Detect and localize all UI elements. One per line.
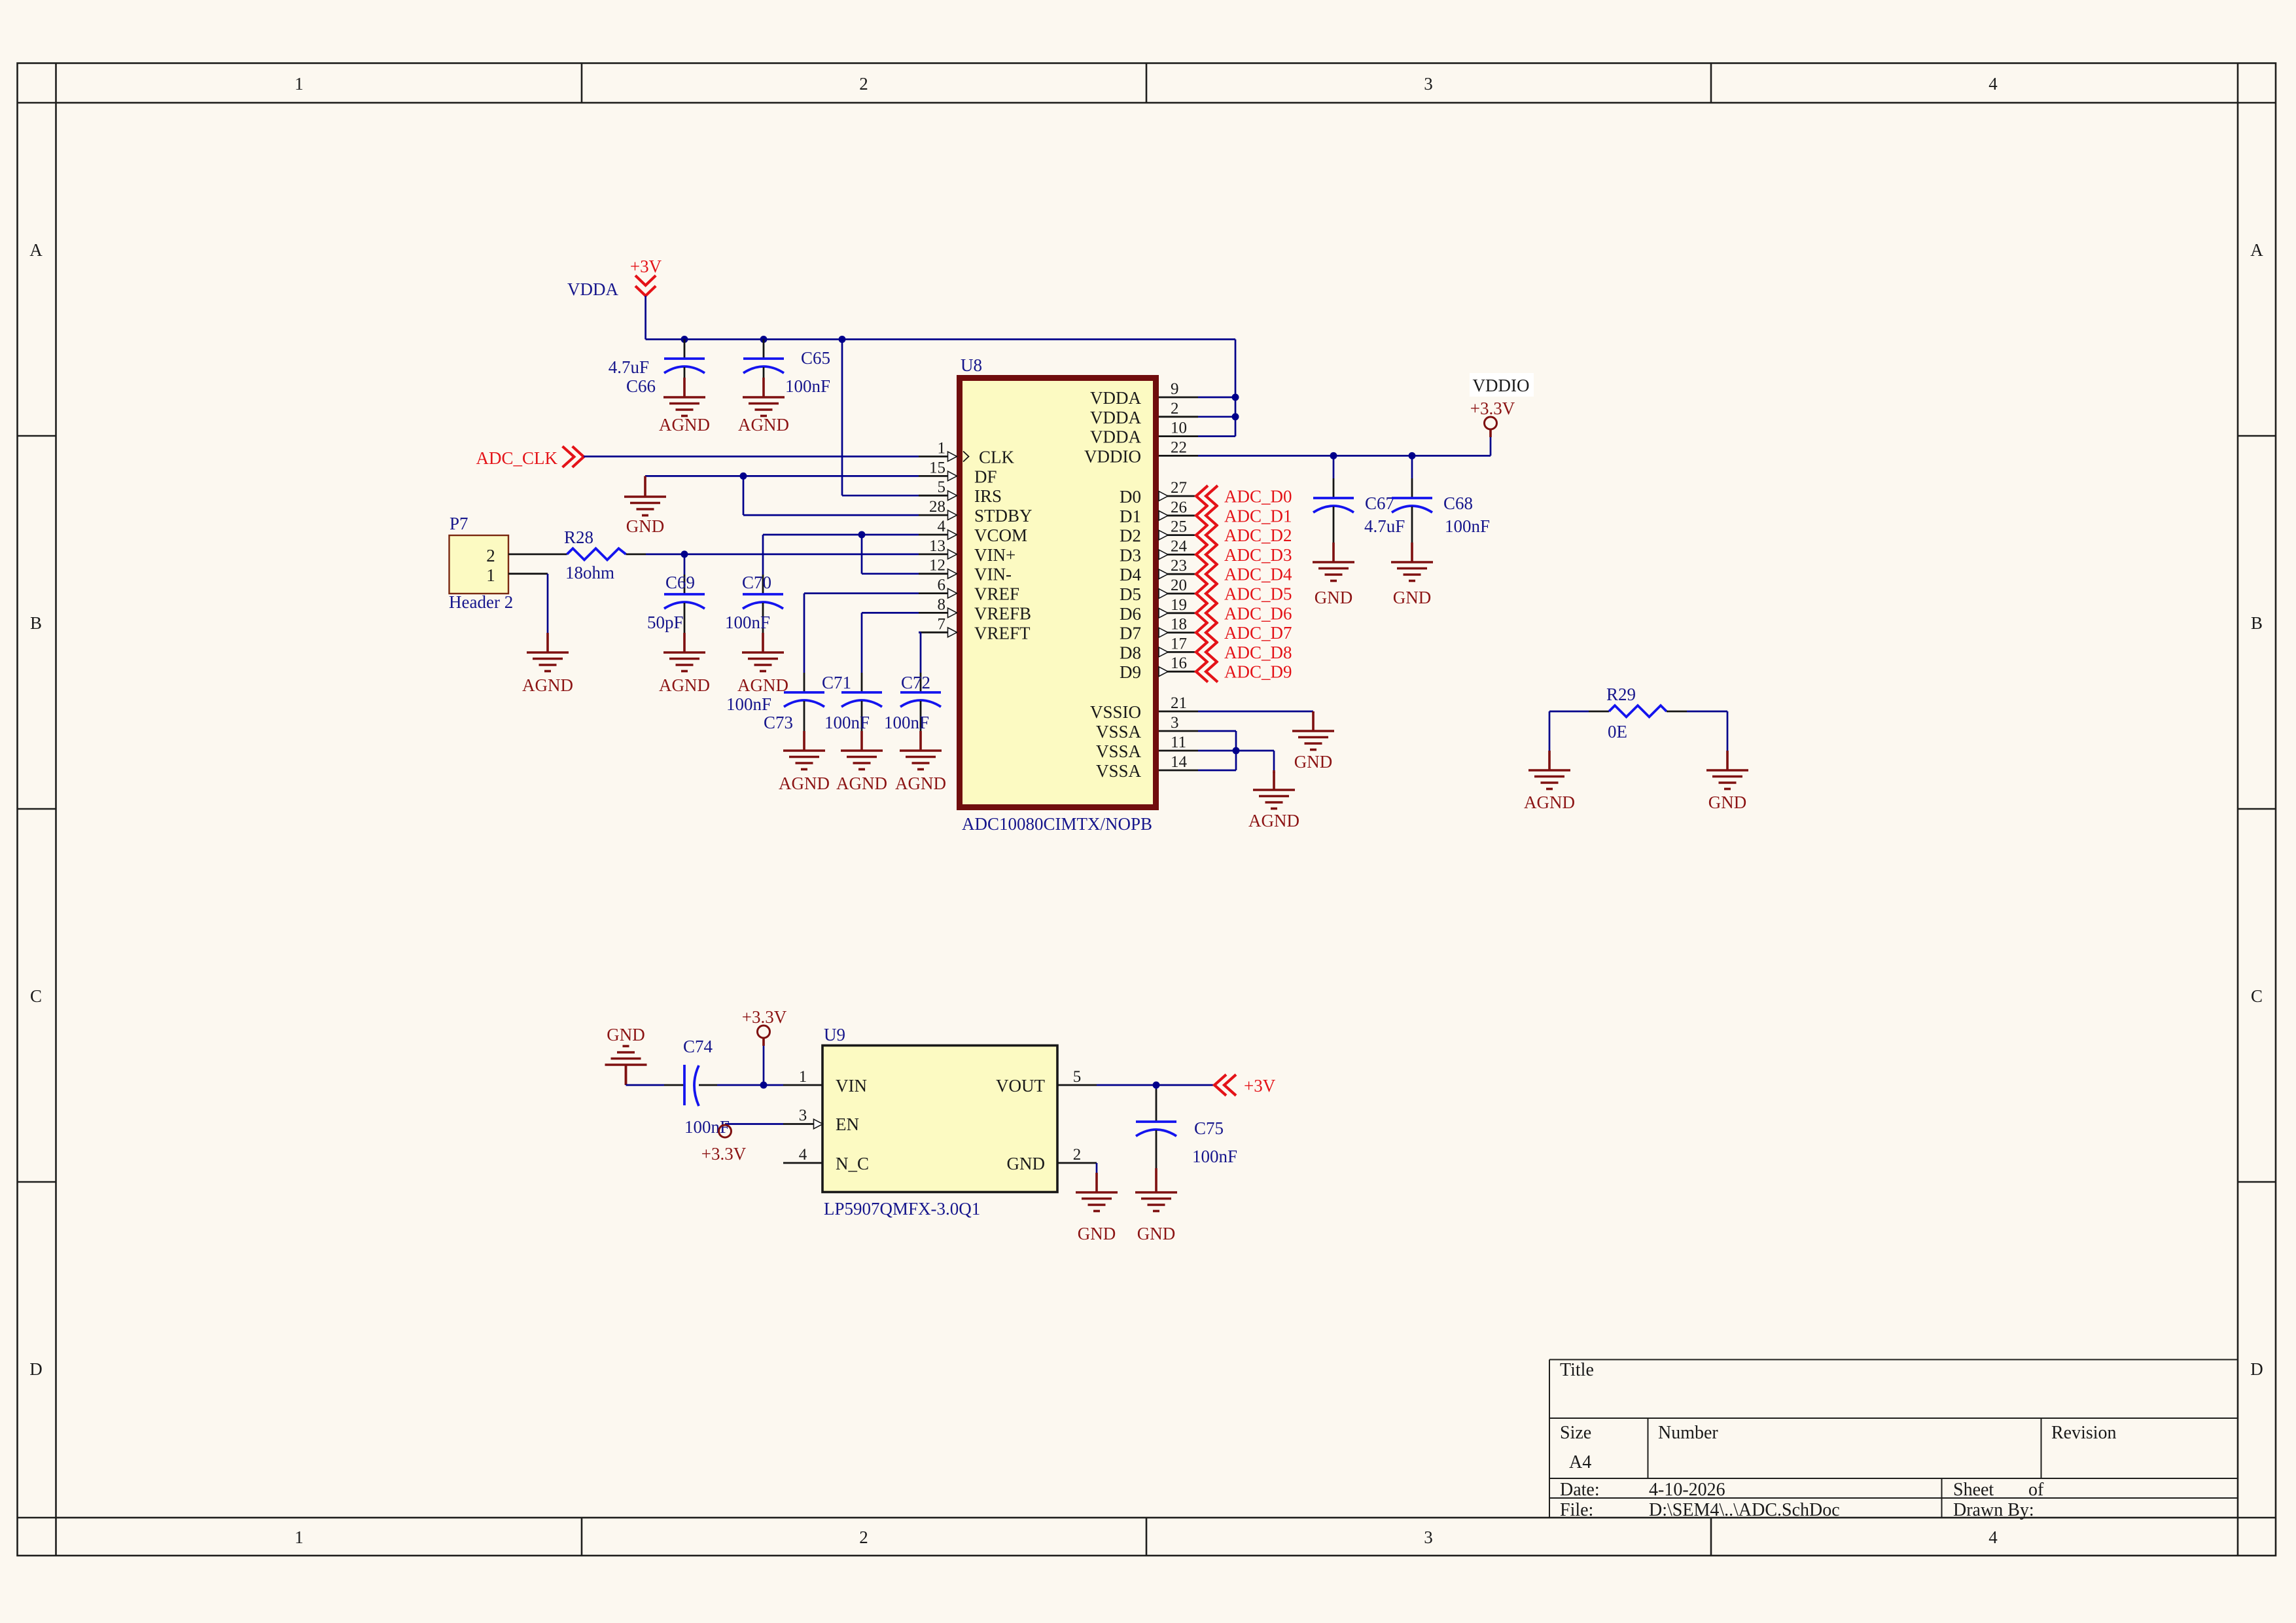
U8 pin 14 VSSA (1159, 770, 1198, 772)
svg-text:D1: D1 (1120, 507, 1141, 526)
svg-text:AGND: AGND (836, 774, 887, 793)
wire pin2 (1198, 416, 1235, 418)
wire P7 pin1 to AGND (547, 574, 549, 633)
U9 pin 4 N_C (783, 1162, 822, 1164)
U8 pin 15 DF (919, 475, 957, 477)
svg-text:VDDA: VDDA (1090, 408, 1141, 427)
svg-text:1: 1 (486, 565, 495, 585)
svg-text:GND: GND (1294, 752, 1333, 772)
wire GND to C74 (626, 1084, 665, 1086)
svg-text:ADC_D0: ADC_D0 (1224, 487, 1292, 507)
svg-text:4: 4 (1988, 74, 1998, 94)
svg-text:50pF: 50pF (647, 613, 684, 632)
svg-text:D0: D0 (1120, 487, 1141, 507)
svg-text:Header 2: Header 2 (449, 592, 513, 612)
ground GND (U9 pin2) (1076, 1173, 1118, 1211)
svg-text:D:\SEM4\..\ADC.SchDoc: D:\SEM4\..\ADC.SchDoc (1649, 1500, 1840, 1520)
junction (1330, 452, 1337, 459)
svg-text:22: 22 (1171, 438, 1187, 456)
svg-text:C70: C70 (742, 573, 771, 592)
svg-text:EN: EN (836, 1115, 859, 1134)
U8 pin 11 VSSA (1159, 750, 1198, 752)
svg-text:Title: Title (1560, 1360, 1594, 1380)
wire STDBY (743, 476, 745, 515)
ground AGND (C72) (900, 731, 942, 770)
svg-text:VSSIO: VSSIO (1090, 702, 1141, 722)
svg-text:GND: GND (1393, 588, 1432, 607)
svg-text:B: B (30, 613, 42, 633)
svg-text:D: D (29, 1359, 43, 1379)
svg-text:2: 2 (859, 74, 868, 94)
P7 pin 2 (508, 554, 548, 556)
U8 pin 3 VSSA (1159, 730, 1198, 732)
svg-text:AGND: AGND (1248, 811, 1299, 830)
svg-text:Size: Size (1560, 1423, 1591, 1443)
port ADC_D0 (1196, 486, 1218, 507)
svg-text:VREFB: VREFB (974, 603, 1031, 623)
ground AGND (C65) (743, 378, 785, 416)
svg-text:U9: U9 (824, 1025, 845, 1044)
svg-text:8: 8 (938, 596, 946, 613)
svg-text:ADC_D4: ADC_D4 (1224, 565, 1292, 584)
svg-text:B: B (2251, 613, 2263, 633)
svg-text:D5: D5 (1120, 584, 1141, 604)
svg-text:1: 1 (294, 74, 304, 94)
capacitor C74 100nF (664, 1084, 684, 1086)
wire U9 GND pin (1096, 1163, 1098, 1173)
svg-text:12: 12 (929, 557, 945, 575)
svg-text:Drawn By:: Drawn By: (1953, 1500, 2034, 1520)
junction (1232, 394, 1239, 401)
svg-text:D8: D8 (1120, 643, 1141, 662)
svg-text:R28: R28 (564, 527, 593, 547)
svg-text:GND: GND (626, 516, 665, 536)
svg-text:2: 2 (859, 1527, 868, 1547)
svg-text:ADC_D7: ADC_D7 (1224, 623, 1292, 643)
svg-text:GND: GND (1137, 1224, 1176, 1243)
svg-text:D4: D4 (1120, 565, 1141, 584)
capacitor C72 100nF (920, 673, 922, 692)
capacitor C66 4.7uF (684, 340, 686, 359)
ground GND (C67) (1313, 543, 1354, 581)
svg-text:AGND: AGND (659, 415, 710, 435)
ground AGND (VSSA) (1273, 772, 1275, 773)
svg-text:DF: DF (974, 467, 997, 486)
svg-text:GND: GND (1078, 1224, 1116, 1243)
svg-text:ADC_D1: ADC_D1 (1224, 506, 1292, 526)
svg-text:VSSA: VSSA (1096, 722, 1142, 741)
svg-text:+3V: +3V (1244, 1076, 1276, 1096)
svg-text:4: 4 (938, 518, 946, 535)
svg-text:1: 1 (799, 1068, 807, 1086)
wire pin9 (1198, 397, 1235, 399)
svg-text:3: 3 (1424, 1527, 1433, 1547)
ground AGND (C66) (663, 378, 705, 416)
capacitor C65 100nF (763, 340, 765, 359)
svg-text:C74: C74 (683, 1037, 713, 1056)
svg-text:25: 25 (1171, 518, 1187, 536)
capacitor C67 4.7uF (1333, 455, 1335, 478)
U8 pin 9 VDDA (1159, 397, 1198, 399)
U8 pin 2 VDDA (1159, 416, 1198, 418)
svg-text:4.7uF: 4.7uF (609, 357, 649, 377)
title block (1549, 1359, 2238, 1361)
svg-text:of: of (2028, 1480, 2044, 1500)
svg-text:3: 3 (799, 1107, 807, 1124)
svg-text:C68: C68 (1443, 493, 1473, 513)
U8 pin 5 IRS (919, 495, 957, 497)
svg-text:R29: R29 (1606, 685, 1636, 704)
svg-text:VDDA: VDDA (1090, 427, 1141, 447)
svg-text:U8: U8 (961, 355, 982, 375)
svg-text:D2: D2 (1120, 526, 1141, 546)
svg-text:ADC_D3: ADC_D3 (1224, 545, 1292, 565)
junction (760, 1082, 768, 1089)
svg-text:15: 15 (929, 459, 945, 476)
svg-text:100nF: 100nF (1445, 516, 1490, 536)
svg-text:ADC_CLK: ADC_CLK (476, 448, 557, 468)
svg-text:3: 3 (1424, 74, 1433, 94)
U8 pin 12 VIN- (919, 573, 957, 575)
wire VDDA stem (645, 296, 646, 340)
wire VSSIO (1198, 711, 1313, 713)
svg-text:ADC_D5: ADC_D5 (1224, 584, 1292, 604)
U8 pin 22 VDDIO (1159, 455, 1198, 457)
svg-text:2: 2 (1171, 400, 1179, 418)
U8 pin 26 D1 (1159, 514, 1198, 516)
power +3.3V (EN) (719, 1125, 732, 1137)
svg-text:AGND: AGND (522, 675, 573, 695)
svg-text:VCOM: VCOM (974, 526, 1027, 545)
svg-text:D9: D9 (1120, 662, 1141, 682)
svg-text:100nF: 100nF (785, 376, 830, 396)
svg-text:C: C (2251, 986, 2263, 1006)
svg-text:Sheet: Sheet (1953, 1480, 1994, 1500)
wire VCOM (763, 534, 919, 536)
svg-text:VREF: VREF (974, 584, 1019, 604)
capacitor C68 100nF (1411, 455, 1413, 478)
junction (1233, 747, 1240, 755)
svg-text:VSSA: VSSA (1096, 741, 1142, 761)
wire ADC_CLK to pin1 (584, 455, 919, 457)
U8 pin 7 VREFT (919, 632, 957, 633)
ground AGND (C69) (663, 633, 705, 671)
wire pin10 (1198, 435, 1235, 437)
svg-text:5: 5 (938, 478, 946, 496)
ground GND (DF) (644, 476, 646, 477)
svg-text:2: 2 (486, 546, 495, 565)
svg-text:23: 23 (1171, 557, 1187, 575)
svg-text:STDBY: STDBY (974, 506, 1033, 526)
svg-text:VDDIO: VDDIO (1473, 376, 1530, 395)
svg-text:ADC_D2: ADC_D2 (1224, 526, 1292, 545)
svg-text:100nF: 100nF (684, 1117, 730, 1137)
svg-text:CLK: CLK (979, 448, 1015, 467)
svg-text:VDDA: VDDA (1090, 388, 1141, 408)
svg-text:Number: Number (1658, 1423, 1718, 1443)
capacitor C70 100nF (762, 575, 764, 594)
U9 pin 3 EN (783, 1123, 814, 1125)
svg-text:100nF: 100nF (725, 613, 770, 632)
capacitor C75 100nF (1156, 1085, 1157, 1089)
svg-text:ADC_D9: ADC_D9 (1224, 662, 1292, 682)
IC U8 ADC10080CIMTX/NOPB (960, 378, 1156, 808)
svg-text:Revision: Revision (2051, 1423, 2117, 1443)
U8 pin 13 VIN+ (919, 554, 957, 556)
ground AGND (C71) (841, 731, 883, 770)
junction (1153, 1082, 1160, 1089)
svg-text:9: 9 (1171, 380, 1179, 398)
U9 pin 1 VIN (783, 1084, 822, 1086)
U8 pin 10 VDDA (1159, 435, 1198, 437)
U8 pin 19 D6 (1159, 612, 1198, 614)
capacitor C71 100nF (861, 673, 863, 692)
U8 pin 4 VCOM (919, 534, 957, 536)
ground GND (R29) (1706, 751, 1748, 789)
svg-text:Date:: Date: (1560, 1480, 1600, 1500)
svg-text:VOUT: VOUT (996, 1076, 1045, 1096)
svg-text:14: 14 (1171, 753, 1188, 771)
svg-text:VIN: VIN (836, 1076, 867, 1096)
svg-text:AGND: AGND (779, 774, 830, 793)
junction (858, 531, 866, 539)
svg-text:File:: File: (1560, 1500, 1593, 1520)
U8 pin 17 D8 (1159, 651, 1198, 653)
svg-text:VIN-: VIN- (974, 565, 1012, 584)
svg-text:11: 11 (1171, 734, 1186, 751)
svg-text:ADC10080CIMTX/NOPB: ADC10080CIMTX/NOPB (962, 814, 1152, 834)
svg-text:VREFT: VREFT (974, 623, 1031, 643)
svg-text:100nF: 100nF (824, 713, 870, 732)
port ADC_D7 (1196, 622, 1218, 643)
svg-text:VSSA: VSSA (1096, 761, 1142, 781)
svg-text:GND: GND (607, 1025, 645, 1044)
svg-text:D7: D7 (1120, 624, 1141, 643)
svg-text:13: 13 (929, 537, 945, 555)
capacitor C69 50pF (684, 554, 686, 575)
U8 pin 8 VREFB (919, 612, 957, 614)
svg-text:VDDA: VDDA (567, 279, 618, 299)
svg-text:AGND: AGND (895, 774, 946, 793)
U8 pin 21 VSSIO (1159, 711, 1198, 713)
svg-text:4: 4 (1988, 1527, 1998, 1547)
U8 pin 23 D4 (1159, 573, 1198, 575)
svg-text:C67: C67 (1365, 493, 1394, 513)
wire EN (725, 1123, 783, 1125)
port ADC_D3 (1196, 544, 1218, 565)
junction (1409, 452, 1416, 459)
wire DF (645, 475, 919, 477)
junction (681, 336, 688, 343)
svg-text:C71: C71 (822, 673, 851, 692)
svg-text:100nF: 100nF (884, 713, 929, 732)
svg-text:C75: C75 (1194, 1118, 1224, 1138)
svg-text:A: A (2250, 240, 2263, 260)
junction (681, 550, 688, 558)
svg-text:6: 6 (938, 577, 946, 594)
svg-text:A: A (29, 240, 43, 260)
ground GND (C68) (1391, 543, 1433, 581)
svg-text:N_C: N_C (836, 1154, 869, 1173)
wire R29 left to AGND (1549, 711, 1551, 751)
svg-text:C72: C72 (901, 673, 930, 692)
wire VIN- (861, 535, 863, 574)
svg-text:P7: P7 (450, 514, 468, 533)
junction (740, 473, 747, 480)
svg-text:4: 4 (799, 1146, 807, 1164)
U8 pin 28 STDBY (919, 514, 957, 516)
svg-text:20: 20 (1171, 577, 1187, 594)
port ADC_D4 (1196, 563, 1218, 584)
svg-text:18: 18 (1171, 616, 1187, 633)
svg-text:IRS: IRS (974, 486, 1002, 506)
svg-text:GND: GND (1708, 793, 1747, 812)
svg-text:+3.3V: +3.3V (701, 1144, 747, 1164)
svg-text:D: D (2250, 1359, 2263, 1379)
wire VOUT (1097, 1084, 1214, 1086)
svg-text:26: 26 (1171, 499, 1187, 516)
svg-text:LP5907QMFX-3.0Q1: LP5907QMFX-3.0Q1 (824, 1199, 980, 1219)
svg-text:100nF: 100nF (1192, 1147, 1237, 1166)
ground AGND (P7) (527, 633, 569, 671)
port ADC_D5 (1196, 583, 1218, 604)
U9 pin 5 VOUT (1057, 1084, 1097, 1086)
U8 pin 6 VREF (919, 592, 957, 594)
svg-text:C73: C73 (764, 713, 793, 732)
ground GND (VSSIO) (1312, 711, 1315, 713)
svg-text:28: 28 (929, 498, 945, 516)
U8 pin 27 D0 (1159, 495, 1198, 497)
ground AGND (R29) (1528, 751, 1570, 789)
svg-text:D3: D3 (1120, 545, 1141, 565)
wire VSSA (1198, 730, 1236, 732)
port ADC_D2 (1196, 525, 1218, 546)
port ADC_D1 (1196, 505, 1218, 526)
svg-text:GND: GND (1007, 1154, 1046, 1173)
svg-text:A4: A4 (1569, 1452, 1591, 1472)
svg-text:0E: 0E (1608, 722, 1627, 741)
svg-text:AGND: AGND (659, 675, 710, 695)
wire VREF (804, 592, 919, 594)
U8 pin 24 D3 (1159, 554, 1198, 556)
svg-text:1: 1 (294, 1527, 304, 1547)
wire VDDIO (1198, 455, 1491, 457)
svg-text:7: 7 (938, 615, 946, 633)
svg-text:18ohm: 18ohm (565, 563, 614, 582)
port ADC_D8 (1196, 641, 1218, 662)
svg-text:C69: C69 (665, 573, 695, 592)
svg-text:C66: C66 (626, 376, 656, 396)
svg-text:+3.3V: +3.3V (1470, 399, 1515, 418)
svg-text:16: 16 (1171, 654, 1187, 672)
ground AGND (C73) (783, 731, 825, 770)
svg-text:5: 5 (1073, 1068, 1082, 1086)
IC U9 LP5907QMFX-3.0Q1 (822, 1046, 1057, 1192)
svg-text:27: 27 (1171, 479, 1187, 497)
junction (1232, 413, 1239, 420)
svg-text:VDDIO: VDDIO (1084, 446, 1141, 466)
U9 pin 2 GND (1057, 1162, 1097, 1164)
wire VREFB (862, 612, 919, 614)
svg-text:D6: D6 (1120, 604, 1141, 624)
svg-text:AGND: AGND (1524, 793, 1575, 812)
svg-text:24: 24 (1171, 537, 1188, 555)
svg-text:4-10-2026: 4-10-2026 (1649, 1480, 1725, 1500)
svg-text:2: 2 (1073, 1146, 1082, 1164)
connector P7 Header 2 (450, 535, 509, 594)
capacitor C73 100nF (804, 673, 805, 692)
svg-text:100nF: 100nF (726, 694, 771, 714)
ground GND (C75) (1155, 1168, 1157, 1173)
svg-text:AGND: AGND (738, 415, 789, 435)
port ADC_D9 (1196, 661, 1218, 682)
svg-text:C65: C65 (801, 348, 830, 368)
svg-text:1: 1 (938, 440, 946, 457)
junction (839, 336, 846, 343)
port +3V (1214, 1075, 1236, 1096)
wire VDDA rail (646, 338, 1235, 340)
power +3.3V (VDDIO) (1470, 373, 1534, 397)
port ADC_D6 (1196, 603, 1218, 624)
svg-text:10: 10 (1171, 419, 1187, 437)
wire VREFT (919, 632, 921, 633)
svg-text:VIN+: VIN+ (974, 545, 1016, 565)
junction (760, 336, 768, 343)
ground AGND (C70) (742, 633, 784, 671)
U8 pin 16 D9 (1159, 671, 1198, 673)
svg-text:3: 3 (1171, 714, 1179, 732)
U8 pin 20 D5 (1159, 593, 1198, 595)
wire C74 to VIN (717, 1084, 783, 1086)
U8 pin 18 D7 (1159, 632, 1198, 633)
svg-text:4.7uF: 4.7uF (1364, 516, 1405, 536)
svg-text:21: 21 (1171, 694, 1187, 712)
U8 pin 25 D2 (1159, 534, 1198, 536)
svg-text:GND: GND (1315, 588, 1353, 607)
svg-text:ADC_D8: ADC_D8 (1224, 643, 1292, 662)
svg-text:AGND: AGND (737, 675, 788, 695)
svg-text:ADC_D6: ADC_D6 (1224, 603, 1292, 623)
wire VIN+ (646, 554, 919, 556)
svg-text:19: 19 (1171, 596, 1187, 614)
P7 pin 1 (508, 573, 548, 575)
svg-text:C: C (30, 986, 42, 1006)
wire R29 right to GND (1727, 711, 1729, 751)
wire IRS (VDDA) (841, 340, 843, 496)
svg-text:+3.3V: +3.3V (742, 1007, 787, 1027)
svg-text:17: 17 (1171, 635, 1187, 652)
U8 pin 1 CLK (919, 455, 957, 457)
svg-text:+3V: +3V (630, 257, 662, 276)
